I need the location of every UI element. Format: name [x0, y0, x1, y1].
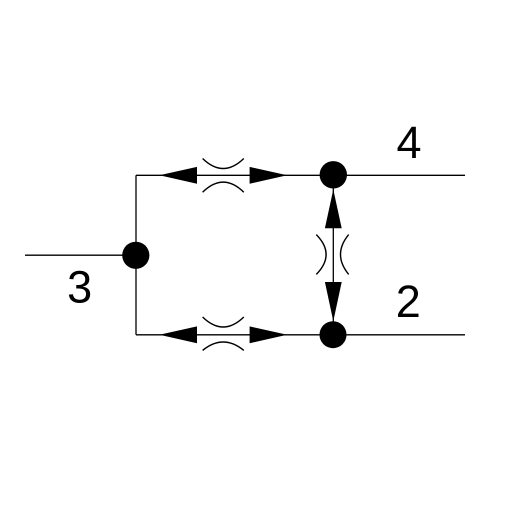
orifice restrictor arcs on vertical line: [316, 235, 348, 275]
flow arrow left on top line: [159, 167, 197, 184]
node 2 junction dot: [320, 321, 347, 348]
node 4 junction dot: [320, 161, 347, 188]
node 3 junction dot: [122, 242, 149, 269]
wire bottom line to port 2: [136, 334, 465, 336]
wire vertical right between node 4 and node 2: [332, 175, 334, 334]
wire vertical left branch: [135, 175, 137, 334]
flow arrow up on vertical line: [325, 190, 342, 229]
wire left stub to port 3: [25, 254, 136, 256]
flow arrow left on bottom line: [159, 326, 197, 343]
flow arrow right on top line: [250, 167, 288, 184]
wire top line to port 4: [136, 174, 465, 176]
svg-text:2: 2: [396, 276, 421, 327]
orifice restrictor arcs on bottom line: [203, 317, 244, 350]
flow arrow right on bottom line: [250, 326, 288, 343]
svg-text:3: 3: [67, 261, 92, 312]
svg-text:4: 4: [396, 117, 421, 168]
orifice restrictor arcs on top line: [203, 159, 244, 193]
flow arrow down on vertical line: [325, 282, 342, 321]
